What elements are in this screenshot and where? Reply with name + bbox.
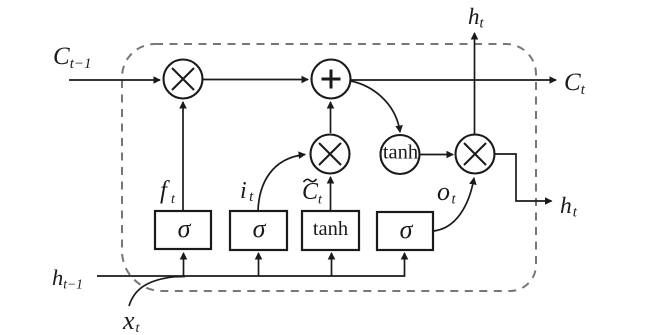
svg-text:σ: σ [253, 214, 267, 243]
svg-text:σ: σ [178, 214, 192, 243]
svg-text:ot: ot [437, 177, 457, 208]
svg-text:xt: xt [122, 306, 141, 335]
svg-text:ht: ht [560, 193, 578, 221]
svg-text:ft: ft [160, 177, 176, 207]
svg-text:σ: σ [400, 215, 414, 244]
svg-text:ht−1: ht−1 [52, 265, 83, 292]
svg-text:tanh: tanh [313, 218, 348, 240]
svg-text:tanh: tanh [383, 142, 418, 164]
svg-text:Ct: Ct [564, 69, 586, 98]
svg-text:ht: ht [468, 4, 485, 32]
svg-text:Ct−1: Ct−1 [53, 43, 91, 72]
svg-text:Ct: Ct [302, 179, 323, 208]
svg-text:it: it [240, 178, 254, 205]
